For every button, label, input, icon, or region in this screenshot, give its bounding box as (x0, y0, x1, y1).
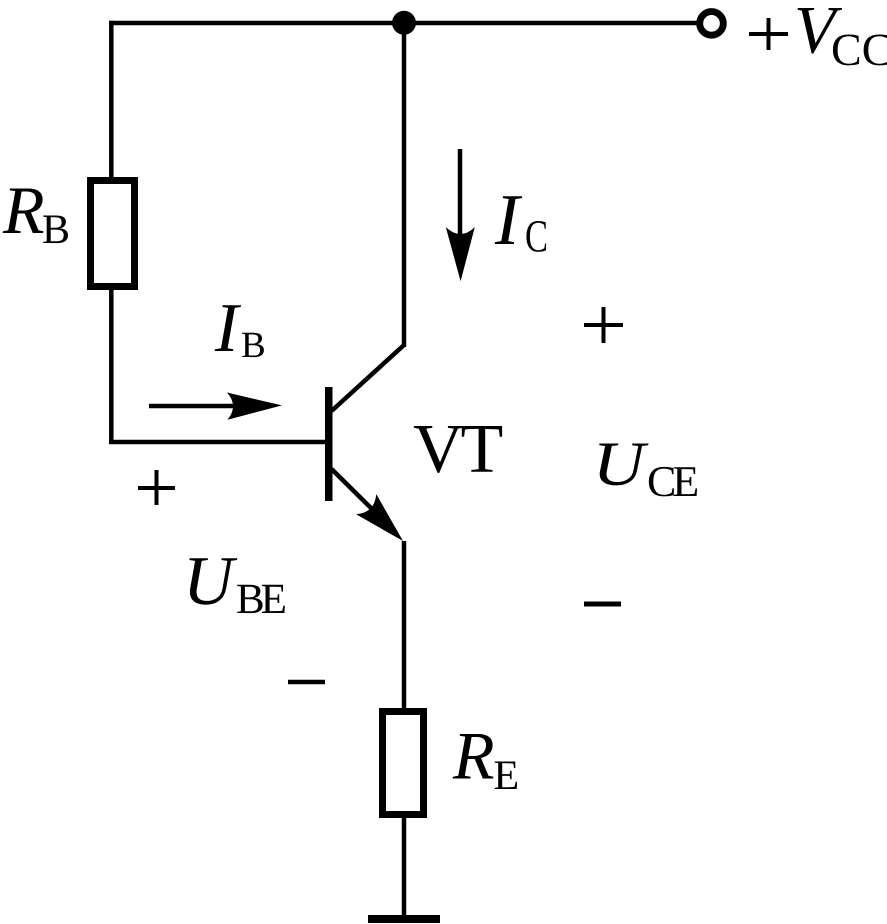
resistor RB (91, 181, 135, 287)
label: Vcc V (798, 8, 843, 54)
wire: top rail from left branch to +Vcc terminal (109, 21, 697, 26)
label: UBE BE subscript (237, 585, 285, 613)
transistor VT: base bar (325, 387, 333, 501)
label: RE R (453, 734, 494, 779)
label: minus sign below UBE (288, 680, 325, 685)
label: IC I (495, 196, 523, 244)
wire: left vertical from top rail down to RB (109, 21, 114, 180)
junction dot on top rail (392, 11, 416, 35)
label: RE E subscript (495, 762, 517, 790)
label: minus sign below UCE (584, 602, 621, 607)
transistor VT: emitter arrowhead (356, 494, 403, 541)
label: RB R (3, 189, 44, 234)
arrow: IC current arrowhead (446, 227, 475, 281)
label: Vcc CC subscript (833, 35, 887, 66)
label: IC C subscript (526, 221, 546, 252)
label: VT text (414, 426, 502, 473)
label: IB I (215, 305, 241, 351)
wire: base horizontal wire to transistor base (109, 440, 325, 445)
label: plus sign of +Vcc (749, 18, 788, 50)
label: UCE U (599, 444, 648, 486)
ground (368, 915, 440, 923)
wire: emitter vertical down to RE (402, 541, 407, 710)
arrow: IC current arrow shaft (458, 149, 463, 234)
label: UBE U (189, 558, 237, 605)
wire: from RE down to ground (402, 815, 407, 919)
label: plus sign above UCE (584, 307, 623, 343)
transistor VT: collector lead diagonal (332, 345, 405, 411)
arrow: IB current arrow shaft (149, 404, 233, 409)
label: RB B subscript (43, 216, 68, 244)
transistor VT: emitter lead diagonal (332, 469, 375, 511)
terminal: +Vcc open circle (700, 12, 724, 36)
arrow: IB current arrowhead (227, 393, 282, 420)
label: IB B subscript (242, 333, 264, 357)
wire: left vertical from RB down to base corner (109, 287, 114, 442)
wire: collector vertical up to top rail junction (402, 23, 407, 347)
label: plus sign at base side of UBE (138, 470, 175, 505)
resistor RE (383, 712, 424, 815)
label: UCE CE subscript (649, 467, 697, 497)
